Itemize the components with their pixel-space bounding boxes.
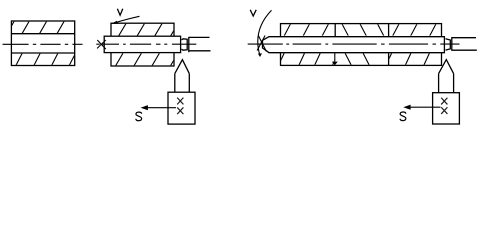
divider arrow marker in bottom band xyxy=(332,53,338,65)
long shaft (right) with left cone xyxy=(263,37,445,53)
rotation arrow (left) xyxy=(111,16,139,24)
label S (left) xyxy=(136,112,142,121)
label V (right) xyxy=(250,10,256,16)
centerline of lap shaft xyxy=(96,43,196,45)
tool holder box (left) xyxy=(168,92,195,124)
right cone step xyxy=(446,39,451,50)
tool holder box (right) xyxy=(433,93,460,124)
centerline (right diagram) xyxy=(248,43,460,45)
label S (right) xyxy=(400,112,406,121)
X marks in right tool box xyxy=(441,98,447,114)
feed arrow S (left) xyxy=(141,105,176,110)
centerline of bushing A xyxy=(3,43,83,45)
abrasive stick neck (right tool) xyxy=(439,74,454,93)
abrasive stick neck (left tool) xyxy=(175,74,190,93)
bottom band section divider xyxy=(388,53,390,66)
lap right cone step xyxy=(182,39,188,50)
rotation arc (right) xyxy=(258,10,272,57)
lap shaft xyxy=(104,36,180,52)
top band section dividers xyxy=(335,24,388,37)
tailstock fork (left) xyxy=(189,37,211,52)
bushing B outline xyxy=(111,23,174,66)
X marks in left tool box xyxy=(177,98,183,115)
label V (left) xyxy=(117,9,122,15)
abrasive stick tip (right tool) xyxy=(439,60,454,74)
feed arrow S (right) xyxy=(403,105,440,110)
cross mark at left cone xyxy=(257,36,266,52)
abrasive stick tip (left tool) xyxy=(175,60,190,74)
drive cross mark at lap left end xyxy=(97,40,106,49)
workpiece bushing A outline xyxy=(11,21,74,66)
tailstock fork (right) xyxy=(452,37,477,51)
block outline (right sleeve) xyxy=(281,24,442,66)
